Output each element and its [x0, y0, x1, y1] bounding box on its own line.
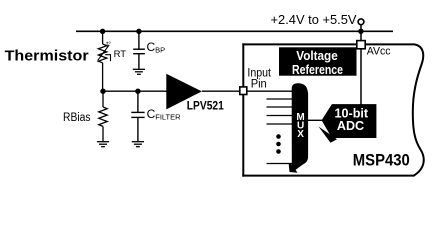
svg-text:LPV521: LPV521: [187, 99, 224, 113]
pin: Input Pin (square): [240, 87, 247, 95]
wire: MUX input stub 2: [267, 98, 293, 100]
wire: MUX output to ADC: [308, 119, 322, 121]
wire: top supply rail: [76, 30, 393, 32]
mux U3: [292, 83, 308, 170]
svg-text:ADC: ADC: [337, 119, 364, 133]
MSP430 box outline: [242, 43, 423, 176]
wire: bottom node rail (thermistor output node): [103, 90, 167, 92]
junction: top rail / AVcc feed: [358, 29, 363, 34]
svg-text:t°: t°: [106, 41, 111, 49]
svg-text:X: X: [297, 129, 304, 140]
resistor RBias: [99, 91, 107, 141]
junction: node / CFILTER: [135, 89, 140, 94]
svg-text:RT: RT: [114, 49, 127, 60]
wire: MUX input stub last: [267, 163, 293, 165]
wire: Input Pin to MUX: [247, 90, 292, 92]
capacitor CFILTER: [131, 91, 144, 141]
wire: MUX input stub 3: [267, 106, 293, 108]
wire: AVcc pin down to ADC: [360, 49, 362, 105]
ellipsis: more MUX inputs: [276, 134, 281, 139]
junction: node / RBias: [100, 89, 105, 94]
svg-text:MSP430: MSP430: [353, 151, 410, 170]
ground: CBP: [133, 69, 145, 74]
pin: AVcc (square): [357, 41, 365, 49]
mux shadow: [289, 163, 298, 173]
adc shadow: [319, 127, 338, 143]
wire: MUX input stub 5: [267, 123, 293, 125]
svg-text:RBias: RBias: [63, 112, 91, 124]
wire: supply terminal to AVcc pin: [360, 25, 362, 41]
wire: MUX input stub 4: [267, 115, 293, 117]
svg-text:Voltage: Voltage: [296, 49, 338, 63]
junction: top rail / thermistor: [100, 29, 105, 34]
wire: op-amp output to Input Pin: [202, 90, 240, 92]
voltage reference U2: [279, 47, 357, 75]
terminal: supply input (open circle): [358, 19, 364, 25]
ground: RBias: [97, 142, 109, 147]
op-amp U1 LPV521 (buffer): [166, 74, 202, 110]
svg-text:Pin: Pin: [251, 79, 267, 91]
svg-text:AVcc: AVcc: [367, 45, 391, 57]
ground: CFILTER: [132, 142, 144, 147]
svg-text:Reference: Reference: [292, 63, 343, 77]
adc U4 (10-bit ADC): [322, 104, 377, 138]
svg-text:+2.4V to +5.5V: +2.4V to +5.5V: [271, 13, 358, 27]
junction: top rail / CBP: [136, 29, 141, 34]
thermistor RT: [98, 31, 111, 91]
svg-text:Thermistor: Thermistor: [5, 47, 89, 64]
capacitor CBP: [133, 31, 145, 69]
svg-text:Input: Input: [247, 65, 271, 79]
